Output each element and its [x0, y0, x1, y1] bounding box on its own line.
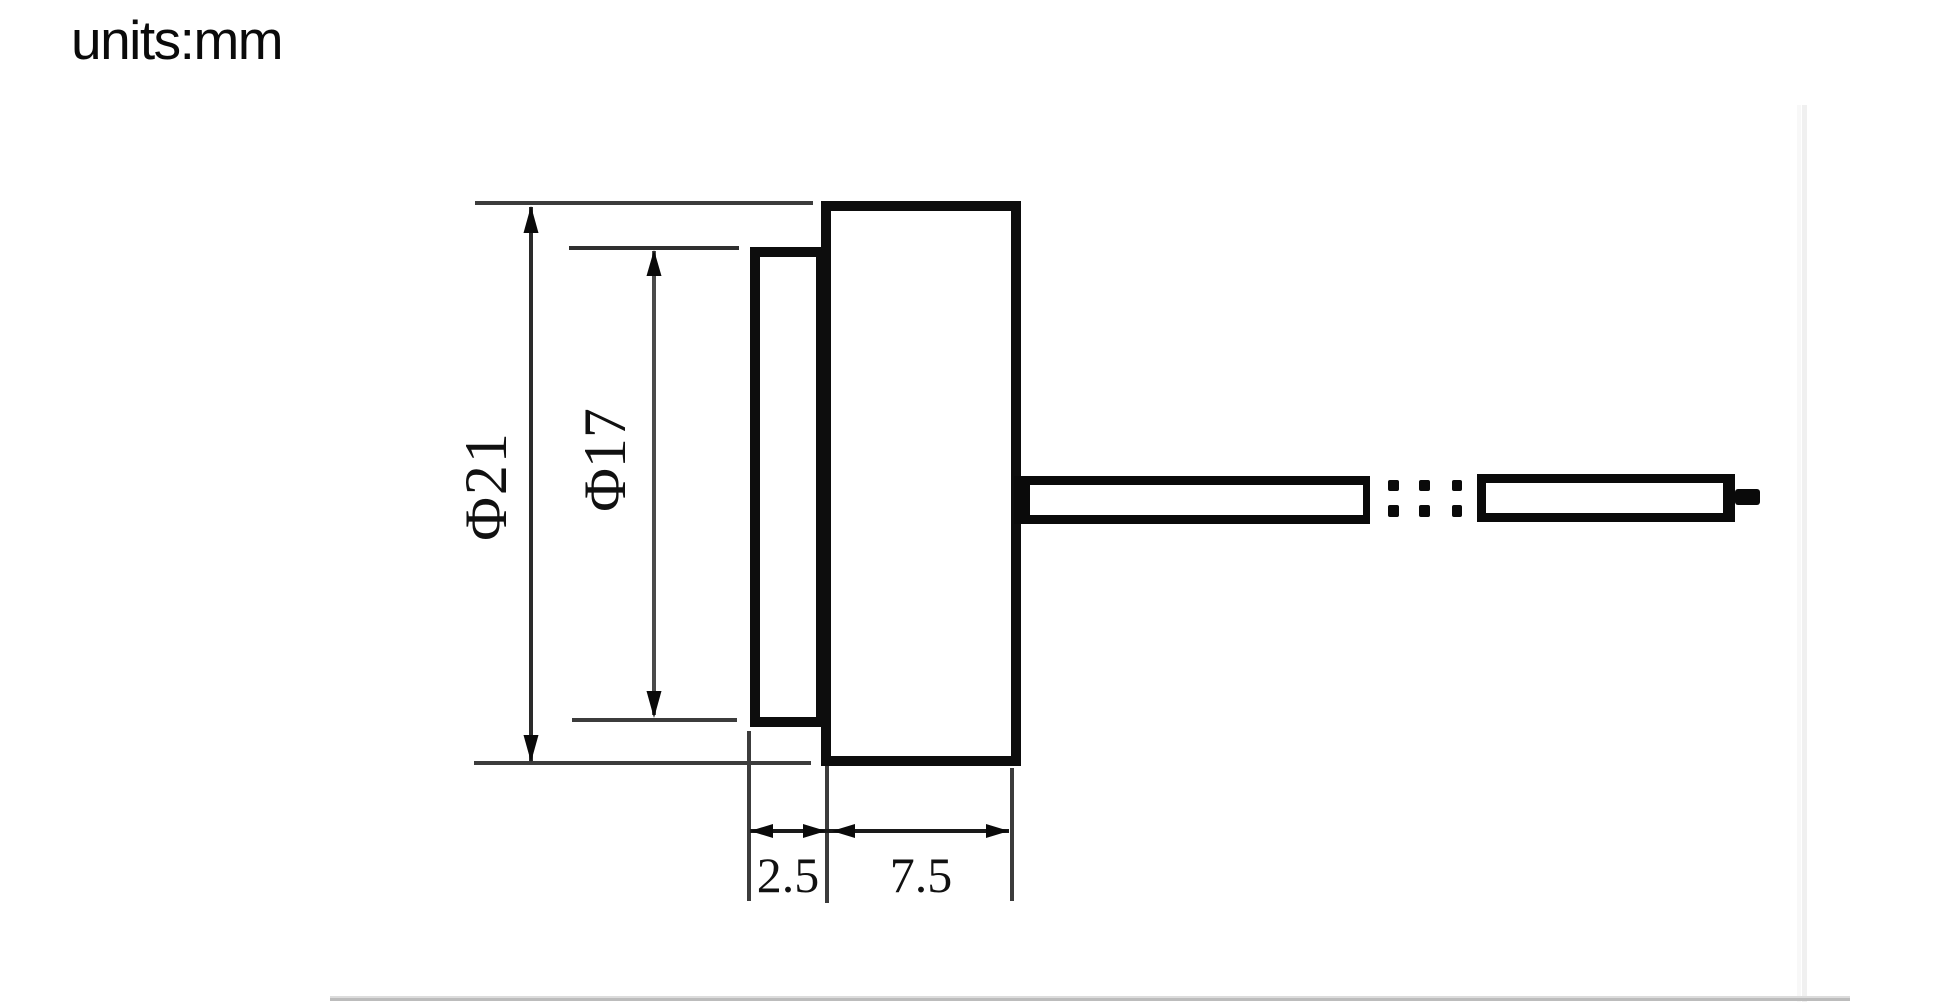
- svg-text:7.5: 7.5: [890, 847, 953, 903]
- faint photo bottom edge: [330, 996, 1850, 998]
- dimension phi17 vertical dimension line: [652, 251, 656, 715]
- bottom dimension line: [750, 829, 1009, 833]
- dimension phi21 top extension line: [475, 201, 813, 205]
- bottom dim extension line B (body left): [825, 766, 829, 903]
- dim 7.5 arrow left: [832, 824, 855, 838]
- transducer body outline: [826, 206, 1016, 761]
- wire tip tab: [1735, 489, 1760, 505]
- flange (front plate) outline: [755, 252, 821, 722]
- faint photo right edge: [1797, 105, 1801, 1002]
- bottom dim extension line A (flange left): [747, 731, 751, 901]
- dimension phi17 bottom extension line: [572, 718, 737, 722]
- cable segment 2: [1477, 474, 1735, 522]
- dimension phi21 arrow up: [524, 206, 539, 233]
- bottom dim extension line C (body right): [1010, 768, 1014, 901]
- dimension phi17 arrow down: [647, 691, 662, 718]
- svg-text:Φ17: Φ17: [572, 408, 638, 512]
- svg-text:2.5: 2.5: [757, 847, 820, 903]
- dim 2.5 arrow left: [750, 824, 773, 838]
- cable break dots: [1388, 480, 1462, 517]
- svg-text:Φ21: Φ21: [453, 431, 519, 541]
- dimension phi17 top extension line: [569, 246, 739, 250]
- dim 2.5 arrow right: [803, 824, 826, 838]
- svg-text:units:mm: units:mm: [71, 9, 282, 71]
- cable segment 1: [1014, 476, 1370, 524]
- dimension phi21 arrow down: [524, 735, 539, 762]
- dimension phi17 arrow up: [647, 250, 662, 276]
- dimension phi21 bottom extension line: [474, 761, 811, 765]
- dim 7.5 arrow right: [986, 824, 1009, 838]
- dimension phi21 vertical dimension line: [529, 207, 533, 761]
